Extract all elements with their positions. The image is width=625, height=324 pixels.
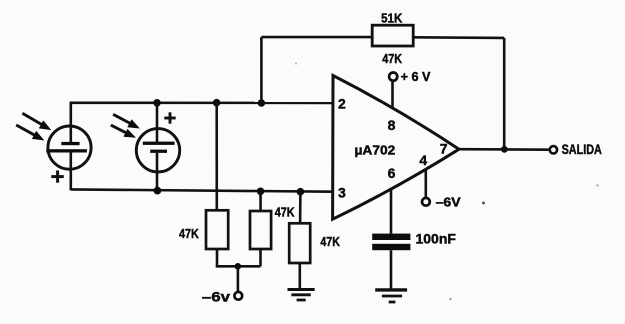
wire R2 top lead (259, 191, 262, 211)
wire R3 bottom lead (298, 263, 301, 289)
svg-text:6: 6 (388, 165, 396, 181)
wire output (pin 7 to SALIDA) (459, 148, 550, 151)
polarity + mark PC1 (51, 171, 64, 183)
resistor R4 51K feedback (372, 25, 413, 46)
photocell PC1 short plate (61, 142, 79, 145)
pin 2 label (338, 96, 346, 112)
pin 6 label (388, 165, 396, 181)
svg-text:–6V: –6V (436, 195, 462, 209)
label -6V (pin 4) (436, 195, 462, 209)
paper speckles (295, 62, 599, 300)
wire feedback top left segment (261, 36, 372, 39)
label 47K (under R4) (382, 52, 402, 66)
wire R1 bottom lead (216, 249, 219, 266)
svg-text:3: 3 (338, 185, 346, 201)
label -6v (bias) (202, 288, 230, 304)
wire feedback riser (right) (503, 38, 506, 149)
wire feedback riser (left) (260, 37, 263, 103)
svg-text:100nF: 100nF (416, 232, 456, 247)
wire bottom rail (photocells to pin 3) (71, 189, 333, 191)
ground (C1) (375, 290, 407, 302)
pin 3 label (338, 185, 346, 201)
node feedback tap junction (258, 99, 266, 107)
svg-text:47K: 47K (382, 52, 402, 66)
label 100nF (416, 232, 456, 247)
node PC2 top junction (153, 99, 161, 107)
node -6V bias junction (235, 263, 242, 270)
node PC2 bottom junction (154, 187, 162, 195)
terminal -6V (pin 4) (422, 198, 430, 206)
label SALIDA (562, 142, 602, 157)
wire capacitor to ground (390, 250, 393, 289)
svg-text:+ 6 V: + 6 V (401, 69, 431, 84)
svg-text:SALIDA: SALIDA (562, 142, 602, 157)
terminal +6V (389, 73, 397, 81)
svg-text:47K: 47K (275, 205, 295, 219)
wire top rail (photocells to pin 2) (71, 102, 333, 105)
wire R3 top lead (299, 192, 302, 224)
wire feedback top right segment (413, 36, 504, 39)
label 47K (R3) (320, 234, 340, 249)
pin 8 label (388, 117, 396, 133)
resistor R1 47K (206, 210, 228, 249)
polarity + mark PC2 (164, 112, 175, 123)
terminal -6V bias (234, 292, 242, 300)
resistor R3 47K (289, 223, 310, 263)
wire to -6V bias terminal (237, 266, 240, 292)
label µA702 (355, 142, 396, 157)
photocell PC1 long plate (46, 149, 87, 152)
pin 4 label (419, 152, 427, 168)
node R2 top junction (257, 188, 265, 196)
photocell PC2 body (136, 129, 179, 172)
resistor R2 47K (250, 211, 271, 249)
wire PC1 top lead (70, 102, 73, 144)
ground (R3) (288, 290, 315, 301)
photocell PC1 body (48, 126, 91, 169)
wire pin 6 to capacitor (390, 188, 393, 234)
svg-text:47K: 47K (179, 226, 199, 241)
light arrows photocell PC1 (16, 113, 51, 140)
pin 7 label (440, 140, 448, 156)
node R3 top junction (297, 188, 305, 196)
capacitor C1 100nF plates (372, 234, 410, 251)
svg-text:–6v: –6v (202, 288, 230, 304)
svg-text:8: 8 (388, 117, 396, 133)
node output junction (501, 146, 508, 153)
wire pin 4 to -6V (424, 170, 427, 198)
label 47K (R2) (275, 205, 295, 219)
terminal SALIDA (550, 146, 557, 153)
label +6V (401, 69, 431, 84)
wire R1-R2 joining bar (216, 265, 261, 268)
photocell PC2 long plate (143, 142, 175, 145)
label 47K (R1) (179, 226, 199, 241)
light arrows photocell PC2 (111, 114, 140, 138)
wire PC2 top lead (156, 102, 159, 143)
wire PC1 bottom lead (70, 152, 73, 190)
wire R2 bottom lead (259, 249, 262, 266)
node R1 top junction (213, 99, 221, 107)
wire pin 8 to +6V (391, 82, 394, 109)
wire PC2 bottom lead (156, 153, 159, 191)
op-amp U1 µA702 triangle (333, 76, 459, 220)
svg-text:4: 4 (419, 152, 427, 168)
svg-text:2: 2 (338, 96, 346, 112)
svg-text:51K: 51K (381, 12, 402, 26)
photocell PC2 short plate (150, 150, 167, 153)
wire R1 top lead (215, 103, 218, 211)
label 51K (381, 12, 402, 26)
svg-text:µA702: µA702 (355, 142, 396, 157)
svg-text:47K: 47K (320, 234, 340, 249)
svg-text:7: 7 (440, 140, 448, 156)
